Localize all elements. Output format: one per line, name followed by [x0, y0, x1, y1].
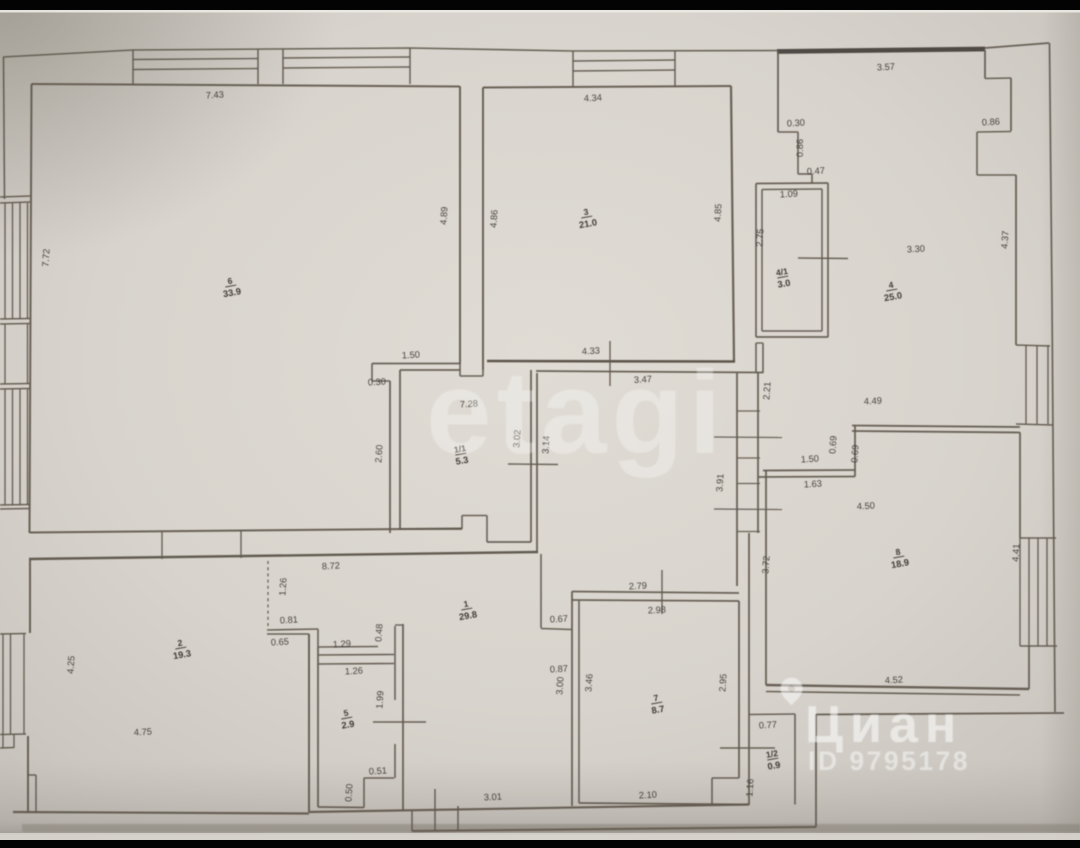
left balcony divider	[0, 202, 30, 203]
wall room6 bottom	[30, 529, 462, 533]
wall hall-18.9 lower	[758, 476, 855, 479]
closet4/1 right outer	[827, 183, 829, 337]
svg-text:0.77: 0.77	[759, 720, 778, 731]
left window hatch line	[12, 203, 14, 319]
left window hatch line	[19, 203, 21, 319]
svg-text:1.29: 1.29	[333, 639, 352, 650]
wall closet1/1 bottom	[400, 528, 462, 530]
wall room6 left	[30, 84, 32, 533]
paper light edge under top bar	[0, 10, 1080, 13]
wall room3 right	[731, 86, 734, 362]
entrance tick	[457, 806, 459, 830]
svg-text:2.60: 2.60	[373, 444, 384, 463]
wall room1/2 top	[749, 713, 795, 716]
wall room2 right	[308, 634, 310, 812]
wall room3 top	[483, 86, 731, 88]
wall closet1/1 right outer	[536, 373, 538, 552]
window hatch room4 bottom	[1016, 424, 1053, 425]
window tick	[409, 48, 411, 84]
wall room1/2 right	[794, 714, 796, 805]
left balcony cap	[0, 504, 30, 507]
closet4/1 top inner	[762, 188, 822, 191]
wall 18.9 bottom	[766, 685, 1029, 689]
svg-text:0.69: 0.69	[849, 444, 860, 463]
wall 18.9 right lower	[1028, 646, 1030, 689]
wall notch bottom	[460, 375, 483, 377]
window tick	[572, 51, 574, 87]
room5 niche top	[364, 777, 394, 779]
closet 4/1 label 3.0	[775, 266, 792, 290]
wall room7 left outer	[571, 592, 573, 807]
wall outer bottom	[412, 827, 816, 831]
rail line	[283, 57, 410, 58]
black bar bottom	[0, 840, 1080, 848]
bay stub	[13, 734, 15, 748]
wall room4-18.9 upper	[852, 426, 1020, 428]
wall outer top boundary	[3, 48, 777, 57]
door line closet1/1	[508, 463, 558, 466]
wall room5 left	[317, 647, 319, 807]
left window hatch line	[27, 389, 29, 505]
wall closet notch	[486, 516, 488, 543]
svg-text:4.37: 4.37	[999, 230, 1010, 249]
wall cap below closet	[756, 342, 763, 344]
left window hatch line	[12, 389, 14, 505]
svg-text:2.10: 2.10	[639, 790, 658, 801]
left balcony cap	[0, 508, 30, 511]
wall room2 bottom	[13, 812, 309, 814]
wall closet1/1 left inner	[399, 370, 401, 529]
wall passage lower	[318, 654, 394, 657]
door tick	[737, 457, 760, 459]
closet4/1 top outer	[756, 182, 828, 185]
window tick	[674, 51, 676, 87]
wall room7 bottom	[579, 803, 749, 805]
closet4/1 bottom inner	[762, 330, 822, 332]
entrance tick	[411, 810, 413, 831]
svg-text:8.72: 8.72	[322, 561, 341, 572]
room 5 label 2.9	[339, 707, 356, 731]
window hatch line	[1046, 538, 1048, 646]
closet4/1 right inner	[821, 189, 823, 331]
closet4/1 left outer	[755, 184, 757, 338]
wall step right	[984, 50, 986, 79]
svg-text:0.87: 0.87	[550, 664, 569, 675]
wall outer bottom-right vertical	[815, 714, 817, 827]
svg-text:1.63: 1.63	[804, 479, 823, 490]
svg-text:0.50: 0.50	[343, 783, 354, 802]
svg-text:0.51: 0.51	[369, 766, 388, 777]
wall room2 left lower	[27, 736, 29, 812]
bay window hatch	[10, 634, 12, 734]
entrance door tick	[434, 789, 436, 831]
wall closet notch	[461, 516, 463, 530]
wall corridor left	[402, 624, 404, 810]
left bay window top	[0, 633, 26, 636]
window hatch line	[1028, 538, 1030, 646]
wall step	[371, 364, 373, 382]
window hatch line	[1019, 538, 1021, 646]
wall room3 left	[482, 88, 484, 371]
wall jog 0.67	[541, 629, 572, 630]
svg-text:1.26: 1.26	[345, 666, 364, 677]
wall step 0.86	[797, 132, 799, 174]
wall thick top room4	[777, 49, 985, 52]
svg-text:4.25: 4.25	[65, 655, 76, 674]
svg-text:0.86: 0.86	[795, 139, 805, 157]
wall corridor bottom	[309, 805, 749, 813]
svg-text:4.49: 4.49	[864, 396, 883, 407]
window hatch line	[1037, 538, 1039, 646]
svg-text:4.75: 4.75	[134, 727, 153, 738]
wall room6 right	[459, 87, 461, 364]
wall room5 right upper	[394, 664, 396, 700]
window hatch 18.9 top	[1020, 537, 1056, 539]
window hatch line	[1036, 345, 1038, 424]
left balcony divider	[0, 383, 30, 386]
wall room7 top outer	[572, 592, 739, 594]
svg-text:3.57: 3.57	[877, 62, 896, 73]
left window hatch line	[4, 203, 6, 319]
right edge shade	[0, 0, 1, 1]
svg-text:4.52: 4.52	[885, 675, 904, 686]
svg-text:3.72: 3.72	[760, 555, 771, 574]
left balcony divider	[0, 388, 30, 391]
door line room5	[373, 721, 426, 723]
rail line	[133, 59, 258, 60]
wall room7 top inner	[572, 600, 739, 601]
wall step 0.86	[977, 131, 1011, 134]
svg-text:2.79: 2.79	[629, 581, 648, 592]
svg-text:3.30: 3.30	[907, 244, 926, 255]
closet4/1 left inner	[761, 190, 763, 332]
wall room4-18.9 lower	[852, 431, 1020, 433]
rail line	[133, 69, 258, 70]
left window hatch line	[27, 203, 29, 319]
svg-text:4.50: 4.50	[857, 501, 876, 512]
window hatch line	[1025, 345, 1027, 424]
wall room3 bottom	[487, 360, 735, 363]
door tick room3	[609, 341, 611, 386]
svg-text:4.89: 4.89	[438, 206, 449, 225]
wall room5 bottom	[318, 806, 364, 809]
bay stub cap	[0, 747, 14, 750]
svg-text:1.16: 1.16	[744, 778, 755, 797]
room2 niche side	[35, 775, 37, 812]
wall corridor top	[29, 552, 538, 559]
svg-text:4.85: 4.85	[712, 203, 723, 222]
svg-text:0.67: 0.67	[550, 614, 569, 625]
wall 18.9 right upper	[1019, 433, 1021, 539]
bay window hatch	[23, 634, 25, 734]
wall step	[811, 174, 813, 184]
wall room7 right outer	[748, 533, 750, 805]
window tick right of top rail 1	[257, 49, 259, 84]
room 3 label 21.0	[576, 205, 598, 230]
door tick	[737, 483, 760, 485]
dashed zone boundary	[267, 561, 269, 629]
paper edge shadow bottom	[22, 824, 1080, 832]
wall corridor right outer	[757, 373, 759, 533]
wall pair top	[394, 626, 396, 664]
svg-text:0.47: 0.47	[807, 166, 826, 177]
left balcony divider	[0, 196, 30, 197]
window hatch line	[1047, 345, 1049, 424]
wall notch	[482, 370, 484, 376]
left window hatch line	[4, 389, 6, 505]
wall jog corridor	[540, 554, 542, 628]
room2 niche top	[27, 774, 36, 776]
top-left corner shadow	[0, 0, 340, 260]
wall corridor top-2	[536, 371, 763, 373]
watermark cian pin	[781, 678, 803, 706]
svg-text:1.50: 1.50	[801, 454, 820, 465]
room5 niche side	[363, 778, 365, 808]
svg-text:1.99: 1.99	[374, 690, 385, 709]
svg-text:7.72: 7.72	[40, 248, 51, 267]
svg-text:0.48: 0.48	[373, 623, 384, 642]
wall closet notch	[462, 515, 487, 517]
room 7 label 8.7	[649, 692, 666, 716]
left bay window bottom	[0, 733, 26, 736]
door tick	[737, 410, 760, 412]
wall room6 bottom-right	[372, 363, 460, 365]
rail line	[573, 70, 675, 71]
wall segment	[755, 343, 757, 373]
door line closet4/1	[798, 257, 848, 260]
wall step 0.47	[798, 173, 812, 175]
wall room7 right inner	[738, 601, 740, 778]
wall pair cap	[395, 624, 403, 626]
wall notch	[459, 364, 461, 377]
svg-text:4.86: 4.86	[488, 209, 499, 228]
svg-text:0.69: 0.69	[827, 435, 838, 454]
svg-text:7.43: 7.43	[205, 89, 224, 100]
closet4/1 bottom outer	[756, 336, 828, 338]
bay stub	[2, 734, 4, 748]
wall closet1/1 bottom-right	[487, 541, 531, 543]
wall room7 left inner	[578, 601, 580, 803]
wall outer right	[1050, 43, 1056, 712]
bay window hatch	[2, 634, 4, 734]
bottom shadow band	[0, 760, 1080, 835]
wall 18.9 left	[765, 471, 767, 686]
left balcony edge	[27, 324, 29, 384]
rail line	[283, 67, 410, 68]
svg-text:3.46: 3.46	[583, 673, 594, 692]
left balcony edge	[4, 324, 6, 384]
room 6 label 33.9	[220, 274, 242, 299]
svg-text:2.95: 2.95	[717, 673, 728, 692]
window tick left of top rail 1	[132, 50, 134, 84]
wall room6 top	[32, 84, 461, 87]
room 8 label 18.9	[888, 545, 910, 570]
wall corridor right inner	[736, 373, 738, 586]
svg-text:4.41: 4.41	[1010, 543, 1021, 562]
door line room1/2	[720, 747, 775, 749]
wall room5 right lower	[394, 744, 396, 778]
wall closet1/1 right inner	[530, 370, 532, 542]
wall room5 top	[318, 663, 394, 666]
black bar top	[0, 0, 1080, 10]
wall step left	[777, 51, 779, 132]
closet 1/1 label 5.3	[453, 443, 470, 467]
wall closet1/1 left outer	[389, 381, 391, 533]
svg-text:2.75: 2.75	[754, 228, 765, 247]
wall room2 top-right upper	[267, 629, 318, 630]
window hatch 18.9 bottom	[1020, 645, 1057, 647]
svg-text:0.81: 0.81	[280, 615, 299, 626]
left balcony divider	[0, 323, 30, 326]
room 2 label 19.3	[170, 636, 192, 661]
svg-text:ID 9795178: ID 9795178	[808, 746, 970, 776]
svg-text:etagi: etagi	[426, 347, 726, 479]
wall outer left edge top	[4, 57, 5, 199]
wall passage upper	[318, 646, 378, 649]
room7 shower square side	[711, 778, 713, 804]
wall room2 left upper	[29, 559, 31, 633]
wall step 18.9	[854, 426, 856, 477]
door line	[714, 508, 782, 511]
door tick	[737, 531, 760, 533]
wall step	[976, 132, 978, 175]
wall 18.9 bottom outer	[766, 692, 1020, 696]
svg-text:4.34: 4.34	[584, 93, 603, 104]
svg-text:2.21: 2.21	[761, 381, 772, 400]
wall closet1/1 top	[400, 369, 460, 371]
svg-text:0.30: 0.30	[368, 377, 387, 388]
svg-text:1.09: 1.09	[780, 189, 799, 200]
wall room4 right	[1015, 175, 1017, 345]
svg-text:0.30: 0.30	[787, 118, 806, 129]
window hatch room4 top	[1016, 345, 1050, 346]
rail line	[573, 60, 675, 61]
svg-text:0.86: 0.86	[982, 117, 1001, 128]
paper light edge above bottom bar	[0, 833, 1080, 840]
svg-text:0.65: 0.65	[271, 637, 290, 648]
door tick room7	[661, 570, 663, 614]
room7 shower square top	[712, 777, 739, 779]
left window hatch line	[19, 389, 21, 505]
wall step	[977, 174, 1016, 176]
wall jog	[317, 629, 319, 647]
svg-text:1.26: 1.26	[277, 577, 288, 596]
wall step 0.30	[372, 380, 390, 382]
door tick room6-corridor	[240, 531, 242, 559]
closet 1/2 label 0.9	[765, 748, 782, 772]
svg-text:2.98: 2.98	[648, 605, 667, 616]
wall hall-18.9 upper	[763, 469, 855, 472]
corridor 1 label 29.8	[456, 597, 478, 622]
svg-text:3.00: 3.00	[554, 676, 565, 695]
wall step	[985, 77, 1011, 80]
door line	[714, 436, 782, 439]
svg-text:1.50: 1.50	[402, 350, 421, 361]
wall room2 top-right lower	[267, 633, 309, 635]
door tick room6-corridor	[161, 532, 163, 560]
svg-text:3.01: 3.01	[484, 792, 503, 803]
room 4 label 25.0	[881, 278, 903, 303]
wall segment	[762, 343, 764, 373]
wall step 0.30	[778, 131, 798, 133]
wall outer top-right	[985, 43, 1049, 48]
wall outer bottom-right horizontal	[816, 713, 1064, 715]
left balcony divider	[0, 318, 30, 321]
wall step	[1010, 78, 1012, 131]
window tick	[282, 49, 284, 84]
